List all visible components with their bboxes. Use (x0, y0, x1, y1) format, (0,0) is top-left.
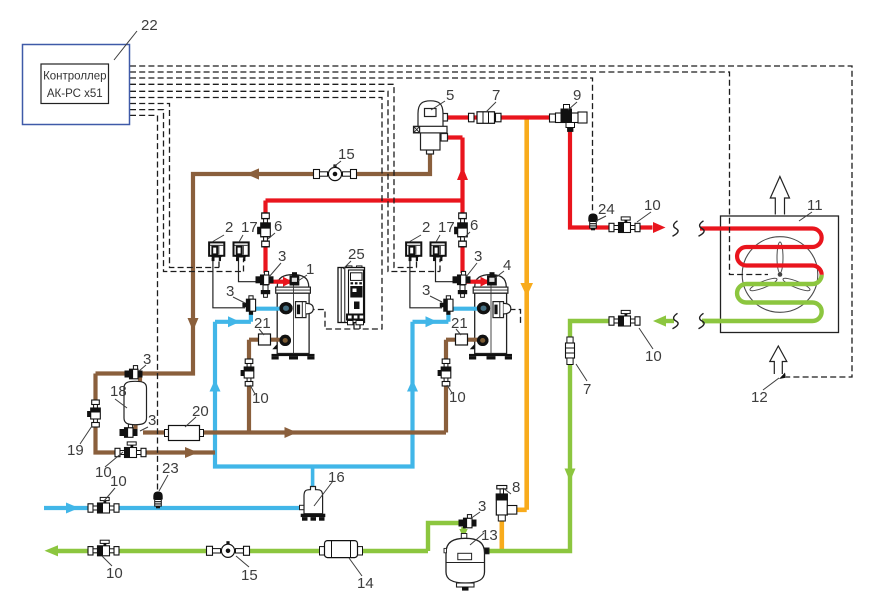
svg-text:5: 5 (446, 87, 454, 104)
svg-text:9: 9 (573, 87, 581, 104)
svg-text:10: 10 (449, 389, 466, 406)
svg-text:11: 11 (807, 197, 823, 214)
svg-text:3: 3 (278, 248, 286, 265)
svg-text:17: 17 (438, 219, 455, 236)
svg-text:18: 18 (110, 383, 127, 400)
svg-text:4: 4 (503, 257, 511, 274)
svg-text:7: 7 (583, 381, 591, 398)
svg-text:3: 3 (474, 248, 482, 265)
svg-text:14: 14 (357, 575, 374, 592)
svg-text:10: 10 (110, 473, 127, 490)
svg-text:13: 13 (481, 527, 498, 544)
svg-text:10: 10 (252, 390, 269, 407)
svg-text:16: 16 (328, 469, 345, 486)
svg-text:22: 22 (141, 17, 158, 34)
svg-text:15: 15 (338, 146, 355, 163)
svg-text:21: 21 (254, 315, 271, 332)
svg-text:АК-РС х51: АК-РС х51 (47, 88, 103, 100)
svg-text:23: 23 (162, 460, 179, 477)
svg-text:25: 25 (348, 246, 365, 263)
svg-text:12: 12 (751, 389, 768, 406)
svg-text:17: 17 (241, 219, 258, 236)
svg-text:15: 15 (241, 567, 258, 584)
svg-text:6: 6 (470, 217, 478, 234)
svg-text:19: 19 (67, 442, 84, 459)
svg-text:20: 20 (192, 403, 209, 420)
svg-text:Контроллер: Контроллер (43, 71, 106, 83)
svg-text:2: 2 (225, 219, 233, 236)
svg-text:1: 1 (306, 261, 314, 278)
svg-text:10: 10 (106, 565, 123, 582)
svg-text:21: 21 (451, 315, 468, 332)
svg-text:3: 3 (143, 351, 151, 368)
svg-text:3: 3 (422, 282, 430, 299)
svg-text:24: 24 (598, 201, 615, 218)
svg-text:3: 3 (226, 283, 234, 300)
svg-text:10: 10 (644, 197, 661, 214)
svg-text:8: 8 (512, 479, 520, 496)
svg-text:3: 3 (478, 498, 486, 515)
svg-text:7: 7 (492, 87, 500, 104)
svg-text:6: 6 (274, 218, 282, 235)
svg-text:2: 2 (422, 219, 430, 236)
svg-text:10: 10 (645, 348, 662, 365)
svg-text:3: 3 (148, 412, 156, 429)
